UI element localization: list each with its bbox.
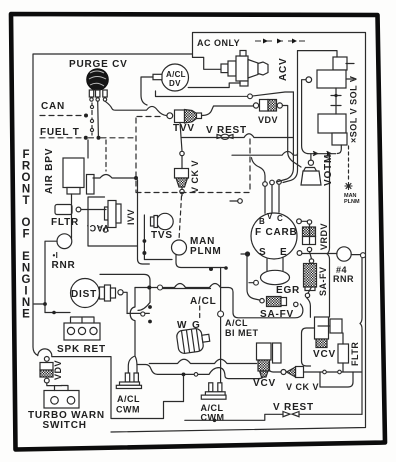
svg-text:RNR: RNR — [52, 260, 76, 271]
svg-text:SA-FV: SA-FV — [318, 267, 328, 297]
svg-text:N: N — [22, 184, 30, 196]
svg-text:TVV: TVV — [173, 123, 195, 134]
svg-text:V CK V: V CK V — [286, 382, 319, 392]
svg-text:AIR BPV: AIR BPV — [44, 148, 55, 194]
svg-text:E: E — [22, 309, 30, 321]
svg-text:A/CL: A/CL — [225, 318, 248, 328]
svg-text:B: B — [259, 217, 265, 226]
svg-text:O: O — [22, 172, 31, 184]
svg-text:G: G — [22, 274, 31, 286]
svg-text:SPK RET: SPK RET — [57, 344, 106, 355]
svg-text:DV: DV — [169, 79, 181, 88]
svg-text:SA-FV: SA-FV — [260, 309, 294, 320]
svg-text:F CARB: F CARB — [255, 227, 298, 238]
svg-text:IVV: IVV — [126, 209, 136, 225]
svg-text:V REST: V REST — [273, 402, 314, 413]
svg-text:VDV: VDV — [258, 115, 278, 125]
svg-text:A/CL: A/CL — [117, 394, 140, 404]
svg-text:CWM: CWM — [116, 405, 140, 415]
svg-text:AC ONLY: AC ONLY — [197, 38, 240, 48]
svg-text:DIST: DIST — [71, 289, 97, 300]
svg-text:V CK V: V CK V — [190, 160, 200, 193]
svg-text:R: R — [22, 161, 31, 173]
svg-text:S: S — [259, 247, 266, 258]
svg-text:E: E — [22, 251, 30, 263]
svg-text:PLNM: PLNM — [190, 246, 222, 257]
svg-text:TVS: TVS — [151, 230, 173, 241]
svg-text:CAN: CAN — [41, 101, 65, 112]
svg-text:C: C — [277, 214, 283, 223]
svg-text:T: T — [22, 195, 29, 207]
svg-text:G: G — [192, 320, 201, 331]
svg-text:O: O — [22, 217, 31, 229]
svg-text:CWM: CWM — [201, 413, 225, 423]
svg-text:N: N — [22, 263, 30, 275]
svg-text:A/CL: A/CL — [190, 296, 217, 307]
svg-text:V: V — [267, 212, 273, 221]
svg-text:A/CL: A/CL — [201, 403, 224, 413]
svg-text:N: N — [22, 297, 30, 309]
svg-text:VCV: VCV — [253, 378, 276, 389]
svg-text:VDV: VDV — [53, 360, 63, 380]
svg-text:•l: •l — [53, 251, 59, 260]
svg-text:EGR: EGR — [276, 285, 300, 296]
svg-text:PURGE CV: PURGE CV — [69, 59, 128, 70]
svg-text:FUEL T: FUEL T — [40, 127, 80, 138]
svg-text:RNR: RNR — [333, 274, 354, 284]
svg-text:VOTM: VOTM — [323, 154, 334, 186]
svg-text:W: W — [177, 320, 187, 331]
svg-text:F: F — [22, 149, 29, 161]
svg-text:F: F — [22, 229, 29, 241]
svg-text:E: E — [280, 247, 287, 258]
svg-text:A/CL: A/CL — [166, 70, 186, 79]
svg-text:FLTR: FLTR — [51, 217, 79, 228]
svg-text:ACV: ACV — [278, 57, 289, 81]
svg-text:FLTR: FLTR — [350, 342, 360, 366]
svg-text:BI MET: BI MET — [225, 328, 259, 338]
svg-text:SWITCH: SWITCH — [43, 420, 87, 431]
svg-text:PLNM: PLNM — [344, 199, 360, 205]
svg-text:VRDV: VRDV — [319, 223, 329, 250]
svg-text:I: I — [24, 286, 27, 298]
svg-text:V REST: V REST — [206, 125, 247, 136]
svg-text:VCV: VCV — [313, 349, 336, 360]
svg-text:×SOL V SOL V: ×SOL V SOL V — [349, 76, 359, 143]
svg-text:VAC.: VAC. — [86, 223, 109, 233]
